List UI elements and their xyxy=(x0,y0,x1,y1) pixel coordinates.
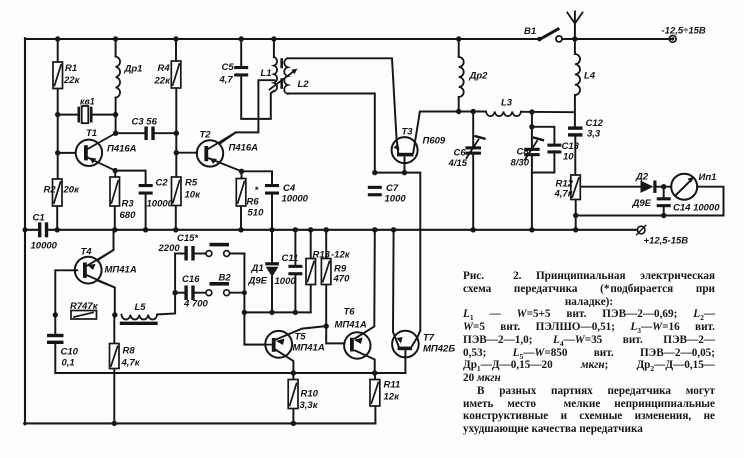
wire D1 top lead xyxy=(271,230,273,263)
node modulator row C11 xyxy=(293,310,298,315)
wire T7 right lead crossing bus xyxy=(412,331,420,347)
meter Ip1 xyxy=(671,174,697,200)
capacitor C3 56 xyxy=(144,127,147,141)
wire Dr1 bottom to T1 collector node xyxy=(115,98,117,134)
svg-text:П416А: П416А xyxy=(229,143,259,154)
node top rail L1 xyxy=(271,36,276,41)
wire R6 bottom lead xyxy=(240,206,242,230)
choke Dr1 xyxy=(116,57,120,98)
wire C8 column top xyxy=(531,112,533,148)
svg-text:4,7к: 4,7к xyxy=(554,189,574,200)
transistor T2 P416A xyxy=(197,132,242,171)
wire C10 top lead xyxy=(54,315,56,334)
capacitor C7 1000 xyxy=(368,186,382,189)
svg-text:В1: В1 xyxy=(524,26,536,37)
svg-text:R8: R8 xyxy=(123,346,136,357)
svg-text:МП41А: МП41А xyxy=(105,265,137,276)
wire T5 collector lead xyxy=(276,326,326,339)
resistor R1 22k xyxy=(53,62,63,89)
caption text block xyxy=(463,270,715,436)
svg-text:МП41А: МП41А xyxy=(335,320,367,331)
capacitor C12 3.3 xyxy=(568,126,583,129)
wire C16 left lead xyxy=(175,292,184,294)
wire T3 emitter row xyxy=(375,173,421,331)
wire R11 bottom lead xyxy=(374,406,376,423)
resistor R5 10k xyxy=(172,177,182,206)
svg-text:10: 10 xyxy=(563,152,574,163)
wire T4 base row xyxy=(55,270,77,315)
svg-text:C7: C7 xyxy=(386,183,399,194)
switch B1 xyxy=(537,29,562,42)
wire R12 to diode D2 xyxy=(581,186,641,188)
svg-text:C14 10000: C14 10000 xyxy=(673,203,720,214)
svg-text:R3: R3 xyxy=(122,199,135,210)
node T3 emitter row left xyxy=(372,170,377,175)
wire T1 emitter row to C2 xyxy=(115,171,145,185)
wire T3 emitter down lead xyxy=(404,158,406,173)
node bus C11 xyxy=(293,227,298,232)
wire T1 emitter node to R3 xyxy=(114,171,116,177)
wire R10 bottom lead xyxy=(292,409,294,424)
node T1 base xyxy=(55,150,60,155)
wire T6 base lead xyxy=(326,326,344,343)
svg-text:R2: R2 xyxy=(44,185,57,196)
wire L3 row right part xyxy=(521,111,575,113)
node modulator row D1 xyxy=(269,310,274,315)
node bus C2 xyxy=(143,227,148,232)
wire quartz right lead xyxy=(92,114,116,116)
wire switch B2 top pole to column xyxy=(230,253,245,255)
svg-text:T2: T2 xyxy=(200,130,212,141)
resistor R3 680 xyxy=(110,177,120,206)
coil L2 xyxy=(284,58,287,94)
node C16 left xyxy=(172,290,177,295)
svg-text:4,7: 4,7 xyxy=(219,75,234,86)
capacitor C1 10000 xyxy=(38,222,41,237)
wire R2 bottom lead xyxy=(56,206,58,230)
svg-text:470: 470 xyxy=(333,274,351,285)
node bus R5 xyxy=(173,227,178,232)
node top rail R4 xyxy=(173,36,178,41)
resistor R12 4.7k xyxy=(571,175,581,200)
svg-text:C5: C5 xyxy=(222,62,235,73)
wire C6 column top xyxy=(472,112,474,147)
wire C13 branch bottom xyxy=(532,151,555,172)
node R12 meter row xyxy=(573,213,578,218)
wire C3 row left xyxy=(116,132,145,134)
switch B2 bottom pole xyxy=(206,282,230,296)
svg-text:Д1: Д1 xyxy=(251,263,264,274)
svg-text:3,3к: 3,3к xyxy=(300,400,319,411)
resistor R11 12k xyxy=(370,380,380,407)
wire C5 top lead xyxy=(240,39,242,67)
svg-text:R10: R10 xyxy=(301,389,319,400)
svg-text:МП42Б: МП42Б xyxy=(423,344,455,355)
wire C16 right lead to switch xyxy=(195,292,206,294)
wire R10 top lead xyxy=(292,373,294,380)
resistor R8 4.7k xyxy=(110,344,120,369)
wire R8 bottom lead crossing emitter row xyxy=(113,369,115,424)
wire L2 top to T3 base xyxy=(288,58,399,153)
node L3 row C8 xyxy=(529,109,534,114)
L1/L2 core bars xyxy=(280,60,283,88)
svg-text:В2: В2 xyxy=(219,273,232,284)
wire T6 collector lead xyxy=(355,230,375,339)
node bus R9 xyxy=(324,227,329,232)
capacitor C15 2200 xyxy=(184,246,187,261)
transistor T1 P416A xyxy=(76,133,116,170)
wire R8 top lead xyxy=(113,315,115,344)
capacitor C14 10000 xyxy=(657,197,671,200)
node bus R12 xyxy=(573,227,578,232)
wire C11 bottom lead xyxy=(294,274,296,313)
L5 core bar xyxy=(122,322,157,325)
svg-text:0,1: 0,1 xyxy=(62,358,75,369)
wire D1 bottom lead xyxy=(271,277,273,312)
wire L1 tap to T2 collector xyxy=(220,80,275,144)
wire C15 right lead to switch xyxy=(195,253,206,255)
diode D2 D9E xyxy=(641,181,657,193)
svg-text:L4: L4 xyxy=(584,71,596,82)
transistor T3 P609 xyxy=(392,137,418,163)
wire T4 emitter lead xyxy=(99,281,115,315)
node emitter row R10 xyxy=(291,370,296,375)
svg-text:10000: 10000 xyxy=(147,199,174,210)
svg-text:C16: C16 xyxy=(182,274,200,285)
node L3 row C6 xyxy=(471,109,476,114)
wire antenna column through L4 xyxy=(574,12,576,55)
resistor R6 510 xyxy=(236,179,246,207)
wire R3 bottom lead xyxy=(114,206,116,230)
svg-text:Д9Е: Д9Е xyxy=(248,276,268,287)
svg-text:C11: C11 xyxy=(282,253,299,264)
wire C4 bottom lead xyxy=(271,195,273,230)
node bus C8 xyxy=(529,227,534,232)
wire C2 bottom lead xyxy=(145,195,147,230)
wire C15 left lead xyxy=(175,253,184,255)
node L3 row Dr2 xyxy=(456,109,461,114)
resistor R10 3.3k xyxy=(288,380,298,409)
svg-text:Ип1: Ип1 xyxy=(699,172,717,183)
svg-text:20к: 20к xyxy=(63,185,81,196)
terminal -12.5V xyxy=(669,36,676,43)
wire T5 emitter lead xyxy=(276,350,293,373)
wire C13 branch top xyxy=(532,127,555,144)
capacitor C11 1000 xyxy=(288,265,302,268)
wire T7 left lead from bus xyxy=(393,230,399,346)
wire T3 collector lead to L3 row xyxy=(413,112,458,153)
svg-text:C10: C10 xyxy=(61,347,79,358)
svg-text:10000: 10000 xyxy=(31,241,58,252)
node top rail antenna xyxy=(572,36,577,41)
wire C8 column bottom xyxy=(531,156,533,230)
svg-text:R6: R6 xyxy=(247,197,260,208)
svg-text:C2: C2 xyxy=(156,178,169,189)
svg-text:R4: R4 xyxy=(158,63,171,74)
node bus C6 xyxy=(471,227,476,232)
wire second bus (+12.5V) xyxy=(48,229,637,231)
coil L3 xyxy=(486,112,521,117)
wire R13 bottom lead xyxy=(310,285,312,313)
svg-text:C6: C6 xyxy=(454,148,467,159)
wire R13 top lead xyxy=(310,230,312,259)
wire C5 bottom to L1 bottom xyxy=(241,77,274,119)
wire T6 emitter lead xyxy=(355,351,375,374)
svg-text:8/30: 8/30 xyxy=(511,158,530,169)
node quartz left xyxy=(55,112,60,117)
node quartz right xyxy=(113,112,118,117)
wire R4 column top xyxy=(175,39,177,61)
node bus R3/T4 xyxy=(112,227,117,232)
wire L4 bottom to C12 xyxy=(574,95,576,127)
svg-text:*: * xyxy=(255,185,260,196)
svg-text:C3 56: C3 56 xyxy=(132,117,158,128)
svg-text:C12: C12 xyxy=(586,118,604,129)
svg-text:T6: T6 xyxy=(344,307,356,318)
node bus R2 xyxy=(55,227,60,232)
switch B2 top pole xyxy=(206,243,230,257)
wire R1-R2 column xyxy=(57,39,59,179)
svg-text:T4: T4 xyxy=(81,247,93,258)
wire L2 bottom to C7 node xyxy=(288,94,375,173)
svg-text:+12,5-15В: +12,5-15В xyxy=(644,236,689,247)
transistor T6 MP41A xyxy=(344,332,370,358)
node top rail Dr1 xyxy=(113,36,118,41)
node bottom rail R10 xyxy=(291,421,296,426)
L2 variable arrow xyxy=(270,72,294,90)
svg-text:C8: C8 xyxy=(517,147,530,158)
svg-text:C15*: C15* xyxy=(177,233,199,244)
svg-text:П416А: П416А xyxy=(107,144,137,155)
transistor T7 MP42B xyxy=(392,331,419,358)
wire T4 collector lead xyxy=(97,230,114,261)
variable capacitor C8 8/30 xyxy=(524,148,540,156)
svg-text:Др2: Др2 xyxy=(469,71,489,82)
svg-text:R5: R5 xyxy=(185,178,198,189)
svg-text:510: 510 xyxy=(248,208,265,219)
node bus R6 xyxy=(238,227,243,232)
diode D1 D9E xyxy=(265,262,279,277)
resistor R7 47k horizontal xyxy=(71,311,97,320)
node B2 column C16 xyxy=(242,290,247,295)
coil L1 xyxy=(274,57,277,91)
svg-text:R1: R1 xyxy=(65,63,77,74)
svg-text:10000: 10000 xyxy=(282,194,309,205)
wire T2 emitter node to R6 xyxy=(241,171,243,178)
svg-text:1000: 1000 xyxy=(385,194,407,205)
wire L1 top lead xyxy=(273,39,275,57)
svg-text:22к: 22к xyxy=(154,76,172,87)
svg-text:Др1: Др1 xyxy=(124,64,143,75)
svg-text:10к: 10к xyxy=(185,190,202,201)
transistor T5 MP41A xyxy=(244,331,292,358)
svg-text:L1: L1 xyxy=(261,68,272,79)
svg-text:L5: L5 xyxy=(135,302,147,313)
node T5 collector / R9 / T6 base xyxy=(324,323,329,328)
variable capacitor C6 4/15 xyxy=(466,146,482,154)
node bus T7 xyxy=(391,227,396,232)
node T1 emitter xyxy=(113,168,118,173)
wire R4 bottom to T2 base node to R5 xyxy=(175,88,177,177)
capacitor C5 4.7 xyxy=(234,66,248,69)
wire left rail xyxy=(24,38,26,424)
node bus R13 xyxy=(308,227,313,232)
svg-text:R11: R11 xyxy=(384,380,401,391)
wire D2 to meter xyxy=(656,186,671,188)
svg-text:C4: C4 xyxy=(283,183,296,194)
svg-text:L3: L3 xyxy=(501,98,513,109)
capacitor C4 10000 xyxy=(265,184,279,187)
wire choke Dr1 top lead xyxy=(115,39,117,57)
svg-text:4 700: 4 700 xyxy=(183,299,208,310)
coil L4 xyxy=(575,54,580,95)
terminal +12.5V xyxy=(637,225,646,234)
svg-text:4/15: 4/15 xyxy=(448,158,468,169)
node bus C7/T6 xyxy=(372,227,377,232)
svg-text:1000: 1000 xyxy=(275,276,297,287)
svg-text:C1: C1 xyxy=(33,213,45,224)
wire R9 bottom lead to T5 collector node xyxy=(325,285,327,327)
svg-text:3,3: 3,3 xyxy=(587,129,601,140)
wire C10 bottom to emitter row xyxy=(55,342,405,373)
node C3 right / R4-R5 xyxy=(174,131,179,136)
svg-text:R747к: R747к xyxy=(70,301,99,312)
svg-text:T5: T5 xyxy=(295,332,307,343)
svg-text:R13: R13 xyxy=(313,250,331,261)
svg-text:МП41А: МП41А xyxy=(293,343,325,354)
wire bottom rail xyxy=(24,422,375,424)
wire R5 bottom lead xyxy=(175,206,177,230)
svg-text:П609: П609 xyxy=(423,136,446,147)
wire modulator node row xyxy=(244,311,310,313)
svg-text:-12к: -12к xyxy=(331,250,351,261)
wire C6 column bottom xyxy=(472,154,474,230)
wire C3 row right xyxy=(155,132,176,134)
node T4 base / R7 xyxy=(53,312,58,317)
node T1 collector / C3 xyxy=(113,131,118,136)
svg-text:4,7к: 4,7к xyxy=(121,358,141,369)
capacitor C16 4700 xyxy=(184,286,187,301)
svg-text:Д9Е: Д9Е xyxy=(632,198,652,209)
capacitor C2 10000 xyxy=(139,184,153,187)
wire quartz left lead xyxy=(58,114,79,116)
wire second bus left of C1 xyxy=(25,229,39,231)
transistor T4 MP41A xyxy=(75,250,115,288)
resistor R4 22k xyxy=(171,61,181,88)
svg-text:22к: 22к xyxy=(63,75,81,86)
wire T7 emitter down lead xyxy=(375,350,406,373)
node top rail Dr2 xyxy=(456,36,461,41)
wire L5 right lead to C15/C16 column xyxy=(157,254,175,315)
node C8/C13 branch xyxy=(529,124,534,129)
node top rail C5 xyxy=(239,36,244,41)
node bottom rail R8 xyxy=(112,421,117,426)
node D2 meter C14 xyxy=(661,184,666,189)
resistor R13 12k xyxy=(306,259,316,285)
svg-text:C13: C13 xyxy=(562,141,580,152)
svg-text:T7: T7 xyxy=(423,333,435,344)
wire R9 top lead xyxy=(325,230,327,259)
wire meter right loop xyxy=(576,187,724,216)
capacitor C13 10 xyxy=(547,144,561,147)
svg-text:-12,5÷15В: -12,5÷15В xyxy=(662,26,706,37)
svg-text:T1: T1 xyxy=(86,128,97,139)
wire L3 row left part xyxy=(459,111,486,113)
wire choke Dr2 top lead xyxy=(458,39,460,57)
resistor R2 20k xyxy=(53,179,63,206)
wire T2 base lead xyxy=(176,152,197,154)
node T3 emitter xyxy=(402,170,407,175)
node bus left rail xyxy=(23,227,28,232)
wire C14 top lead xyxy=(663,187,665,198)
wire T2 emitter row to C4 xyxy=(242,171,273,184)
node bus C4/D1 xyxy=(269,227,274,232)
wire top supply rail xyxy=(25,38,539,40)
wire C14 bottom lead xyxy=(663,206,665,216)
choke Dr2 xyxy=(459,57,464,97)
node T2 base xyxy=(174,150,179,155)
svg-text:Д2: Д2 xyxy=(635,172,649,183)
wire R12 bottom lead xyxy=(575,200,577,230)
svg-text:680: 680 xyxy=(120,210,137,221)
wire C12 bottom to R12 xyxy=(574,135,576,175)
node C14 bottom xyxy=(661,213,666,218)
node top rail R1 xyxy=(55,36,60,41)
wire C11 top lead xyxy=(294,230,296,265)
node T2 emitter xyxy=(239,169,244,174)
wire switch B2 bottom pole to column xyxy=(230,292,245,294)
svg-text:L2: L2 xyxy=(298,79,310,90)
svg-text:2200: 2200 xyxy=(158,243,181,254)
resistor R9 470 xyxy=(321,259,331,285)
svg-text:T3: T3 xyxy=(402,127,414,138)
node T4 emitter / R7 / L5 / R8 xyxy=(112,312,117,317)
svg-text:кв1: кв1 xyxy=(80,97,95,107)
svg-text:12к: 12к xyxy=(384,392,401,403)
wire Dr2 bottom lead xyxy=(458,97,460,112)
antenna xyxy=(567,13,582,24)
wire B2 column down to T5 base xyxy=(244,254,265,345)
node modulator row B2 xyxy=(242,310,247,315)
capacitor C10 0.1 xyxy=(47,334,64,337)
quartz crystal kv1 xyxy=(79,106,91,123)
wire T1 base lead xyxy=(58,152,76,154)
wire R11 top lead xyxy=(374,373,376,380)
coil L5 xyxy=(122,315,158,320)
wire top rail right of switch B1 xyxy=(562,38,671,40)
node emitter row R11 xyxy=(372,370,377,375)
